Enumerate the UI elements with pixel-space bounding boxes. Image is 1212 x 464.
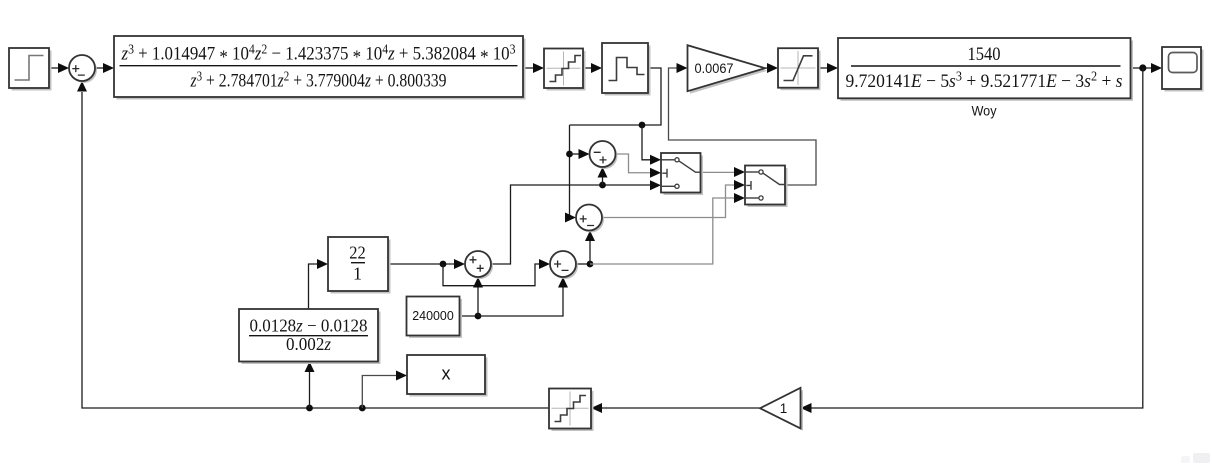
node J1: [639, 122, 646, 129]
display block x: [407, 355, 488, 397]
svg-text:x: x: [442, 364, 451, 384]
wire J6 up to sumC bottom: [585, 231, 595, 265]
svg-text:z3 + 1.014947 * 104z2 − 1.4233: z3 + 1.014947 * 104z2 − 1.423375 * 104z …: [121, 41, 516, 68]
signal stair block: [602, 43, 651, 96]
svg-text:1: 1: [353, 264, 362, 284]
node J6: [587, 261, 594, 268]
wire signal output down-left: [570, 68, 662, 125]
constant 240000: [407, 297, 463, 339]
wire 240000 out: [460, 315, 478, 317]
wire J3 up to sum1 bottom: [598, 167, 608, 185]
wire jog J4 to sumB left: [443, 259, 550, 286]
wire J1 to switch1 input1: [642, 125, 661, 165]
node J4: [440, 261, 447, 268]
node J5: [475, 313, 482, 320]
svg-text:9.720141E − 5s3 + 9.521771E −: 9.720141E − 5s3 + 9.521771E − 3s2 + s: [846, 69, 1123, 92]
svg-text:0.0067: 0.0067: [695, 61, 734, 76]
switch SW2: [745, 166, 788, 208]
faint watermark bottom right: [1181, 453, 1210, 463]
wire J2 to sum1 left: [570, 149, 590, 159]
quantizer Q2: [549, 389, 594, 432]
switch SW1: [661, 153, 703, 195]
sum junction sumA: [465, 251, 493, 279]
wire feedback J7 down to gain1: [801, 68, 1143, 413]
gain 1 (feedback, points left): [760, 388, 803, 431]
node J8: [306, 405, 313, 412]
discrete transfer fcn TF1: [114, 36, 526, 100]
node J7: [1139, 64, 1146, 71]
svg-text:0.0128z − 0.0128: 0.0128z − 0.0128: [250, 316, 368, 336]
wire J5 right up to sumB bottom: [478, 277, 568, 316]
wire main vertical to sumC: [565, 125, 576, 223]
saturation block: [778, 48, 821, 90]
node J3: [599, 182, 606, 189]
wire gain to saturation: [765, 63, 778, 73]
wire 22/1 out to sumA left: [388, 259, 465, 269]
svg-text:Woy: Woy: [972, 103, 997, 119]
wire saturation to TF2: [818, 63, 838, 73]
wire step to sum0: [49, 63, 69, 73]
wire sumC out to switch2 input2: [602, 180, 745, 218]
wire J6 right to switch2 input3: [590, 193, 745, 264]
svg-text:240000: 240000: [412, 308, 454, 323]
wire sum0 to TF1: [95, 63, 114, 73]
wire sum1 out to switch1 input2: [616, 154, 662, 178]
wire TF1 to quantizer Q1: [523, 63, 544, 73]
svg-text:1540: 1540: [968, 44, 1001, 65]
discrete tf 0.0128z block: [239, 309, 381, 364]
quantizer Q1: [544, 49, 586, 91]
step source block: [9, 48, 52, 91]
svg-text:1: 1: [780, 401, 788, 416]
wire TF2 to scope: [1131, 63, 1163, 73]
sum junction sum0: [69, 55, 97, 83]
svg-text:22: 22: [349, 243, 366, 263]
sum junction sumC: [576, 205, 604, 233]
transfer fcn TF2 Woy: [838, 38, 1133, 119]
wire J5 up to sumA bottom: [473, 277, 483, 316]
svg-text:z3 + 2.784701z2 + 3.779004z +: z3 + 2.784701z2 + 3.779004z + 0.800339: [190, 68, 447, 91]
wire Q1 to signal block: [583, 63, 602, 73]
wire J9 up to x block: [362, 371, 407, 409]
node J2: [566, 151, 573, 158]
wire gain1 to Q2: [591, 403, 760, 413]
sum junction sumB: [550, 251, 578, 279]
sum junction sum1: [590, 141, 618, 169]
wire sumA out up to bus y185.5: [491, 180, 661, 264]
gain block 22/1: [328, 237, 391, 294]
node J9: [359, 405, 366, 412]
wire J8 up to 0.0128z bottom: [305, 362, 315, 409]
wire switch2 out loop to gain: [669, 63, 817, 185]
svg-text:0.002z: 0.002z: [286, 334, 331, 354]
wire 0.0128z top out to 22/1: [309, 259, 329, 309]
wire switch1 out to switch2 input1: [701, 167, 746, 177]
gain 0.0067: [688, 45, 768, 93]
wire Q2 out left and up to sum0 bottom: [77, 81, 549, 408]
wire sumB out: [576, 263, 590, 265]
scope block: [1162, 47, 1204, 92]
